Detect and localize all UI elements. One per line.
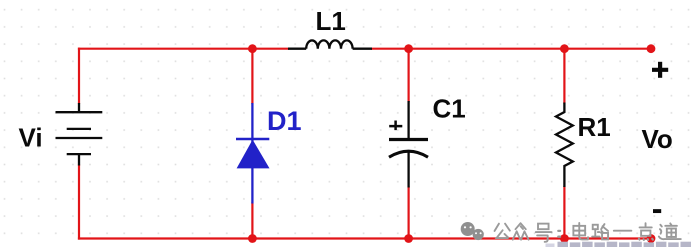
svg-text:C1: C1 xyxy=(433,94,466,124)
svg-text:L1: L1 xyxy=(316,6,346,36)
svg-text:D1: D1 xyxy=(267,106,302,136)
svg-text:R1: R1 xyxy=(578,112,611,142)
svg-text:Vo: Vo xyxy=(642,124,673,154)
svg-text:Vi: Vi xyxy=(19,122,43,152)
